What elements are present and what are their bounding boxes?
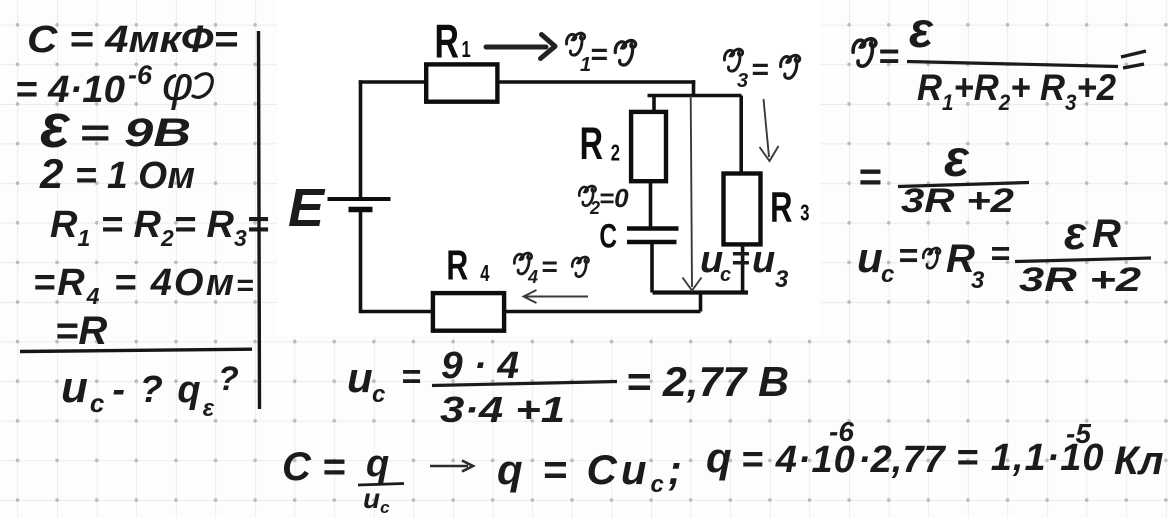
label I1 = I (handwritten) [566, 33, 635, 76]
calc: q = 4e-6 * 2.77 = 1.1e-5 C [706, 416, 1164, 483]
given: = 4e-6 F [15, 58, 212, 111]
svg-text:ε: ε [909, 2, 934, 58]
svg-text:=: = [751, 53, 769, 86]
label I3 = I (handwritten) [724, 49, 799, 92]
wire: bar to R3 [739, 96, 743, 174]
label R1 [435, 15, 471, 68]
svg-text:-6: -6 [128, 60, 153, 90]
wire: bottom right from jog to R4 [504, 310, 701, 314]
svg-text:= 1 Ом: = 1 Ом [75, 155, 195, 197]
svg-text:=R: =R [55, 309, 107, 353]
label Uc = U3 (handwritten) [700, 239, 789, 293]
resistor R1 [426, 64, 497, 101]
long annotation arrow down (node voltage direction) [683, 96, 702, 291]
resistor R4 [433, 293, 504, 331]
svg-text:u: u [347, 354, 373, 401]
svg-text:3·4 +1: 3·4 +1 [440, 389, 565, 430]
formula: = EMF / (3R + r) [858, 130, 1029, 220]
svg-text:C =: C = [282, 445, 345, 489]
svg-text:= 9В: = 9В [79, 111, 191, 155]
arrow: implies [430, 461, 473, 472]
svg-text:=: = [401, 358, 421, 396]
svg-text:=: = [990, 235, 1010, 273]
formula: Uc = I R3 = EMF R / (3R + r) [857, 207, 1151, 299]
svg-text:R: R [770, 182, 792, 230]
svg-text:3: 3 [971, 267, 985, 294]
label R2 [580, 120, 620, 169]
svg-text:-5: -5 [1066, 418, 1091, 449]
svg-text:q: q [366, 443, 389, 485]
divider: vertical line [259, 31, 260, 409]
wire: left vertical from battery bottom plate down to bottom-left corner [359, 210, 363, 314]
svg-text:ε: ε [944, 130, 970, 188]
svg-text:3R +2: 3R +2 [1019, 261, 1141, 299]
wire: top from left corner to R1 [359, 80, 426, 84]
svg-text:R: R [1092, 212, 1121, 256]
svg-text:3: 3 [800, 201, 809, 226]
svg-text:1: 1 [462, 37, 471, 62]
svg-text:=0: =0 [599, 183, 629, 213]
label I4 = I (handwritten) [514, 251, 588, 287]
wire: upper junction bar [648, 94, 742, 98]
svg-text:4: 4 [480, 261, 490, 286]
wire: R2 to capacitor [649, 181, 653, 227]
label R4 [446, 242, 490, 289]
capacitor C plates [627, 229, 679, 243]
svg-text:u: u [857, 234, 883, 281]
svg-text:·2,77: ·2,77 [858, 439, 946, 481]
svg-text:4: 4 [527, 267, 538, 287]
svg-text:=R4 = 4Ом=: =R4 = 4Ом= [33, 262, 256, 309]
svg-text:3R +2: 3R +2 [901, 182, 1014, 220]
wire: R3 to lower bar [741, 244, 745, 292]
svg-text:3: 3 [775, 266, 789, 293]
svg-text:q: q [706, 434, 732, 481]
wire: top from R1 to right corner [497, 80, 695, 84]
wire: right corner drop [692, 80, 696, 95]
wire: bottom left from R4 to left corner [361, 310, 435, 314]
wire: stub from bar to R2 [652, 96, 656, 112]
svg-text:=: = [541, 251, 557, 282]
calc: Uc = 9*4/(3*4+1) = 2.77 V [347, 345, 789, 430]
svg-text:=: = [731, 240, 750, 276]
wire: jog from lower bar down to bottom wire [699, 293, 703, 312]
label R3 [770, 182, 809, 230]
current arrow I4 (thin left arrow) [524, 290, 589, 303]
svg-text:=: = [858, 155, 881, 199]
divider: horizontal line [20, 349, 252, 351]
svg-text:φ: φ [162, 58, 193, 111]
svg-text:R: R [435, 15, 459, 68]
wire: capacitor to lower junction bar [650, 242, 654, 293]
svg-text:= 4·10: = 4·10 [15, 69, 125, 111]
svg-text:9 · 4: 9 · 4 [441, 345, 519, 387]
svg-text:R: R [580, 120, 603, 169]
battery E (EMF source plates) [328, 197, 391, 201]
svg-text:c: c [881, 261, 894, 288]
calc: C = q/Uc [282, 443, 404, 517]
svg-text:C = 4мкФ=: C = 4мкФ= [27, 19, 238, 61]
svg-text:u: u [752, 239, 775, 281]
svg-text:=: = [590, 38, 608, 71]
svg-text:c: c [372, 381, 385, 408]
label I2 = 0 (handwritten) [579, 183, 629, 218]
annotation arrow from I3 label down to R3 [760, 99, 779, 161]
svg-text:2: 2 [39, 150, 63, 197]
svg-text:3: 3 [737, 70, 748, 92]
svg-text:c: c [720, 264, 731, 286]
svg-text:-6: -6 [829, 416, 854, 447]
white paper patch behind circuit [277, 0, 820, 336]
resistor R3 [724, 174, 761, 245]
wire: left vertical from top-left corner down to battery top plate [359, 80, 363, 199]
resistor R2 [631, 112, 666, 181]
svg-text:ε: ε [1064, 207, 1087, 259]
wire: lower junction bar [653, 290, 749, 294]
svg-text:R: R [446, 242, 468, 289]
label C [599, 218, 617, 256]
current arrow I1 (thick right arrow) [486, 35, 555, 59]
svg-text:=: = [878, 35, 899, 76]
svg-text:E: E [288, 178, 326, 238]
svg-text:C: C [599, 218, 617, 256]
svg-text:=: = [898, 237, 918, 275]
given: EMF = 9 V [40, 92, 191, 161]
svg-text:Кл: Кл [1114, 439, 1164, 483]
svg-text:2: 2 [611, 141, 620, 166]
given: r = 1 Ohm [39, 150, 195, 197]
svg-text:= 2,77 В: = 2,77 В [626, 358, 789, 405]
formula: I = EMF / (R1+R2+R3+r) [853, 2, 1146, 115]
